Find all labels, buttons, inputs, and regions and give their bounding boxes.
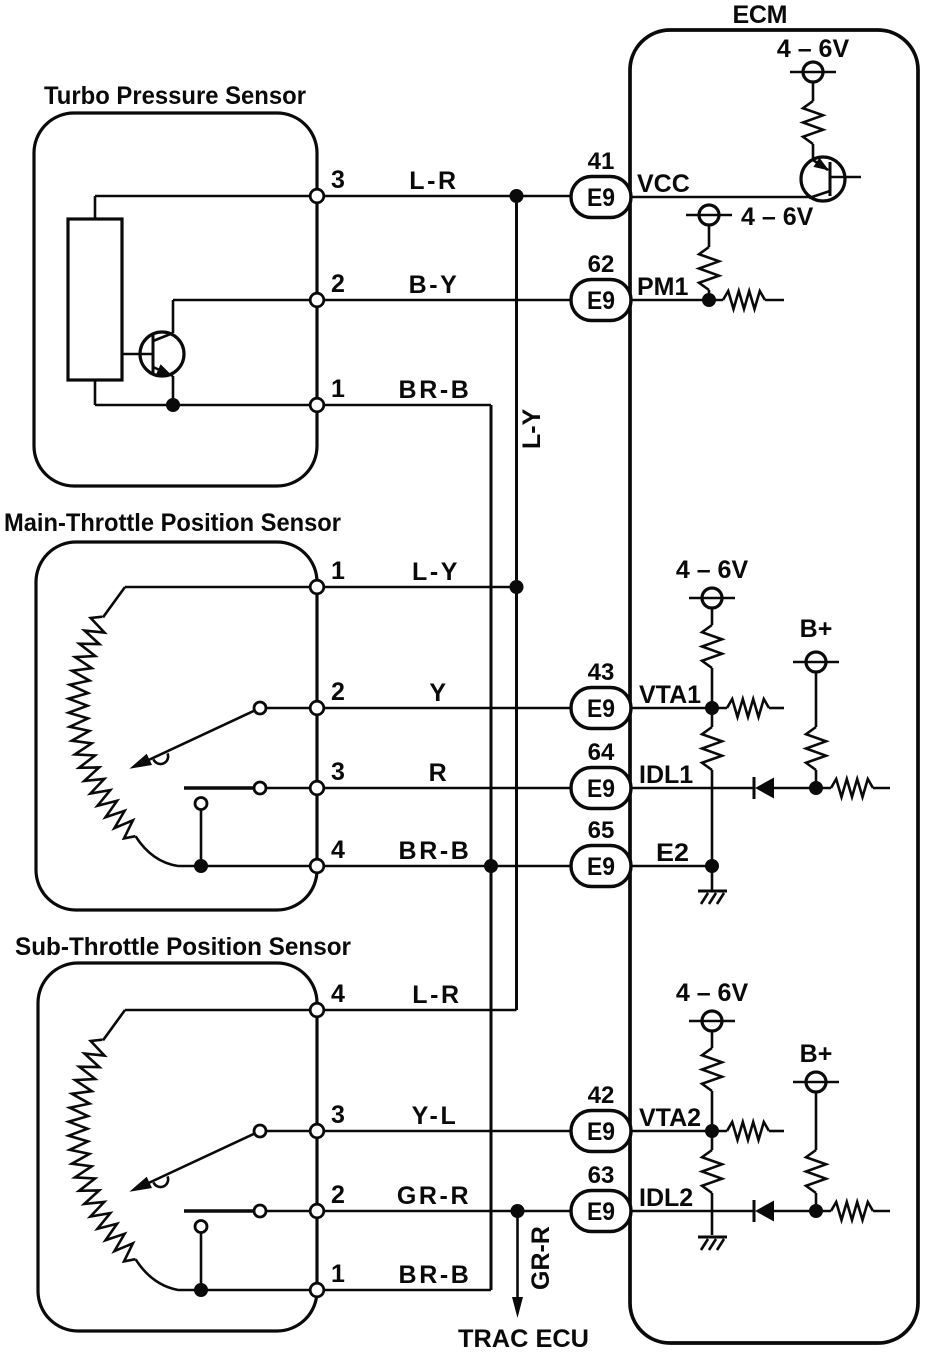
svg-text:VTA1: VTA1 bbox=[639, 681, 701, 709]
wire: L-Y vertical harness bbox=[515, 196, 518, 1010]
wiper arrow bbox=[140, 711, 254, 764]
resistor (VTA1 upper pull-up) bbox=[702, 625, 722, 668]
svg-text:Main-Throttle Position Sensor: Main-Throttle Position Sensor bbox=[4, 509, 341, 537]
power symbol 4-6V (PM1 pull-up) bbox=[686, 205, 732, 225]
wire: pin3 stub to sensor top bbox=[94, 196, 97, 219]
wire: resistor tail bbox=[873, 787, 890, 790]
wire: supply to resistor bbox=[708, 225, 711, 247]
svg-text:R: R bbox=[429, 759, 450, 787]
wire: IDL2 inside ECM bbox=[630, 1210, 754, 1213]
junction: contact post to pin wire bbox=[194, 859, 208, 873]
potentiometer resistive track bbox=[69, 617, 136, 839]
junction: VTA1 node bbox=[705, 701, 719, 715]
svg-text:4: 4 bbox=[331, 836, 345, 864]
svg-text:62: 62 bbox=[588, 251, 615, 278]
wire: diode to node bbox=[773, 787, 831, 790]
wire: pot bottom lead bbox=[136, 836, 178, 866]
diode D1 (IDL1) bbox=[754, 777, 774, 799]
wire: pot top lead bbox=[103, 1010, 125, 1040]
wire: L-R (turbo pin3 to VCC) bbox=[95, 195, 572, 198]
wire: resistor tail bbox=[873, 1210, 890, 1213]
wire: B+ to resistor bbox=[815, 1092, 818, 1150]
wire: GR-R branch to TRAC ECU bbox=[516, 1211, 519, 1300]
sensor element (resistive block) bbox=[68, 219, 122, 380]
IDL moving contact arm bbox=[184, 1209, 254, 1213]
junction: IDL1 node bbox=[809, 781, 823, 795]
pin 2 (sub) bbox=[310, 1204, 324, 1218]
power symbol 4-6V (VCC pull-up) bbox=[790, 62, 836, 82]
svg-text:63: 63 bbox=[588, 1162, 615, 1189]
wire: down past IDL row bbox=[711, 770, 714, 866]
IDL fixed contact circle bbox=[195, 798, 207, 810]
connector E9 pin 65 (E2) bbox=[571, 846, 631, 887]
pin 1 (sub) bbox=[310, 1283, 324, 1297]
svg-text:43: 43 bbox=[588, 659, 615, 686]
junction: emitter/pin1 node bbox=[166, 398, 180, 412]
junction: IDL2 node bbox=[809, 1204, 823, 1218]
wire: fixed contact post bbox=[200, 809, 203, 866]
wire: GR-R (sub pin2 to IDL2) bbox=[266, 1210, 572, 1213]
svg-text:E9: E9 bbox=[587, 287, 615, 315]
svg-text:L-Y: L-Y bbox=[518, 408, 546, 449]
svg-text:2: 2 bbox=[331, 1181, 345, 1209]
svg-text:IDL1: IDL1 bbox=[639, 761, 693, 789]
pin 1 (turbo) bbox=[310, 398, 324, 412]
resistor (below VTA2 node) bbox=[711, 1131, 714, 1150]
wire: supply to resistor bbox=[711, 608, 714, 625]
wire: Y-L (sub pin3 to VTA2) bbox=[266, 1130, 572, 1133]
svg-text:E9: E9 bbox=[587, 695, 615, 723]
svg-text:E9: E9 bbox=[587, 1198, 615, 1226]
wire: emitter to node bbox=[172, 376, 175, 405]
wire: diode to node bbox=[773, 1210, 831, 1213]
resistor (PM1 series) bbox=[723, 291, 765, 309]
wire: BR-B (turbo pin1) bbox=[95, 404, 491, 407]
wire: resistor to node bbox=[711, 668, 714, 708]
svg-text:E9: E9 bbox=[587, 1118, 615, 1146]
resistor (below VTA1 node) bbox=[711, 708, 714, 727]
wire: pot top lead bbox=[103, 587, 125, 617]
wire: resistor to IDL2 node bbox=[815, 1193, 818, 1211]
connector E9 pin 62 (PM1) bbox=[571, 280, 631, 321]
svg-text:GR-R: GR-R bbox=[527, 1226, 555, 1290]
svg-text:IDL2: IDL2 bbox=[639, 1184, 693, 1212]
IDL fixed contact circle bbox=[195, 1221, 207, 1233]
wire: resistor to IDL1 node bbox=[815, 770, 818, 788]
svg-text:TRAC ECU: TRAC ECU bbox=[458, 1325, 589, 1353]
svg-text:L-R: L-R bbox=[412, 981, 461, 1009]
diode D2 (IDL2) bbox=[754, 1200, 774, 1222]
wire: resistor tail bbox=[769, 707, 784, 710]
wire: sensor bottom stub bbox=[94, 380, 97, 405]
svg-text:Y-L: Y-L bbox=[412, 1102, 459, 1130]
wire: VTA1 inside ECM bbox=[630, 707, 727, 710]
svg-text:3: 3 bbox=[331, 1101, 345, 1129]
wire: E2 to ground bbox=[711, 866, 714, 890]
svg-text:3: 3 bbox=[331, 166, 345, 194]
junction: PM1 node bbox=[702, 293, 716, 307]
pin 1 (main) bbox=[310, 580, 324, 594]
svg-text:4 – 6V: 4 – 6V bbox=[676, 556, 749, 584]
svg-text:Y: Y bbox=[429, 679, 448, 707]
power symbol B+ (IDL1) bbox=[793, 652, 839, 672]
wire: BR-B (sub pin1) bbox=[178, 1289, 491, 1292]
wire: fixed contact post bbox=[200, 1232, 203, 1290]
junction: L-Y at main pin1 wire bbox=[510, 580, 524, 594]
svg-text:VTA2: VTA2 bbox=[639, 1104, 701, 1132]
pin 4 (sub) bbox=[310, 1003, 324, 1017]
pin 3 (turbo) bbox=[310, 189, 324, 203]
ECM box bbox=[630, 30, 918, 1343]
svg-text:L-Y: L-Y bbox=[412, 558, 460, 586]
resistor (IDL2 series) bbox=[831, 1202, 873, 1220]
resistor (IDL2 pull-up) bbox=[806, 1150, 826, 1193]
svg-text:Turbo Pressure Sensor: Turbo Pressure Sensor bbox=[44, 82, 306, 110]
junction: VTA2 node bbox=[705, 1124, 719, 1138]
svg-text:4 – 6V: 4 – 6V bbox=[741, 203, 814, 231]
svg-text:B+: B+ bbox=[800, 615, 833, 643]
connector E9 pin 43 (VTA1) bbox=[571, 688, 631, 729]
svg-text:E9: E9 bbox=[587, 853, 615, 881]
wiper arm contact circle bbox=[254, 702, 266, 714]
svg-text:BR-B: BR-B bbox=[399, 1261, 472, 1289]
connector E9 pin 64 (IDL1) bbox=[571, 768, 631, 809]
svg-text:BR-B: BR-B bbox=[399, 376, 472, 404]
connector E9 pin 41 (VCC) bbox=[571, 177, 631, 218]
Sub-Throttle Position Sensor box bbox=[38, 963, 317, 1331]
wire: resistor to transistor bbox=[812, 144, 815, 160]
potentiometer resistive track bbox=[69, 1040, 136, 1262]
svg-text:1: 1 bbox=[331, 1260, 345, 1288]
ground (E2) bbox=[698, 891, 727, 904]
wire: L-R (sub pin4) bbox=[125, 1009, 517, 1012]
resistor (VTA2 series) bbox=[727, 1122, 769, 1140]
pin 4 (main) bbox=[310, 859, 324, 873]
ground (VTA2 chain) bbox=[698, 1237, 727, 1250]
transistor Q1 (in sensor) bbox=[122, 332, 184, 376]
svg-text:VCC: VCC bbox=[637, 170, 690, 198]
wire: BR-B vertical harness bbox=[490, 405, 493, 1290]
svg-text:64: 64 bbox=[588, 739, 615, 766]
IDL moving contact arm bbox=[184, 786, 254, 790]
wiper pivot arc bbox=[154, 753, 169, 764]
wire: down past IDL row bbox=[711, 1193, 714, 1235]
svg-text:B-Y: B-Y bbox=[409, 271, 460, 299]
svg-text:65: 65 bbox=[588, 817, 615, 844]
svg-text:PM1: PM1 bbox=[637, 273, 689, 301]
wiper arrow bbox=[140, 1134, 254, 1187]
svg-text:41: 41 bbox=[588, 148, 615, 175]
resistor (IDL1 series) bbox=[831, 779, 873, 797]
transistor U1 (ECM VCC) bbox=[801, 157, 861, 201]
svg-text:L-R: L-R bbox=[409, 167, 458, 195]
pin 2 (main) bbox=[310, 701, 324, 715]
svg-text:42: 42 bbox=[588, 1082, 615, 1109]
svg-text:BR-B: BR-B bbox=[399, 837, 472, 865]
wire: resistor tail bbox=[765, 299, 784, 302]
connector E9 pin 63 (IDL2) bbox=[571, 1191, 631, 1232]
power symbol 4-6V (VTA2 pull-up) bbox=[689, 1011, 735, 1031]
svg-text:ECM: ECM bbox=[733, 1, 788, 29]
junction: L-Y at VCC wire bbox=[510, 189, 524, 203]
pin 3 (main) bbox=[310, 781, 324, 795]
svg-text:GR-R: GR-R bbox=[397, 1182, 471, 1210]
Main-Throttle Position Sensor box bbox=[36, 542, 317, 910]
junction: E2 node bbox=[705, 859, 719, 873]
junction: BR-B at E2 wire bbox=[484, 859, 498, 873]
Turbo Pressure Sensor box bbox=[34, 113, 317, 486]
svg-text:3: 3 bbox=[331, 758, 345, 786]
arrow to TRAC ECU bbox=[512, 1297, 523, 1318]
svg-text:1: 1 bbox=[331, 557, 345, 585]
wire: resistor to PM1 node bbox=[708, 290, 711, 300]
svg-text:4 – 6V: 4 – 6V bbox=[676, 979, 749, 1007]
svg-text:Sub-Throttle Position Sensor: Sub-Throttle Position Sensor bbox=[15, 933, 351, 961]
resistor (VTA2 upper pull-up) bbox=[702, 1048, 722, 1091]
svg-text:4: 4 bbox=[331, 980, 345, 1008]
wire: B+ to resistor bbox=[815, 672, 818, 727]
wiper arm contact circle bbox=[254, 1125, 266, 1137]
resistor (PM1 pull-up) bbox=[699, 247, 719, 290]
svg-text:2: 2 bbox=[331, 678, 345, 706]
wire: resistor tail bbox=[769, 1130, 784, 1133]
wire: VTA2 inside ECM bbox=[630, 1130, 727, 1133]
pin 3 (sub) bbox=[310, 1124, 324, 1138]
wire: resistor to node bbox=[711, 1091, 714, 1131]
resistor (VTA1 series) bbox=[727, 699, 769, 717]
IDL contact circle bbox=[254, 782, 266, 794]
connector E9 pin 42 (VTA2) bbox=[571, 1111, 631, 1152]
wire: BR-B (main pin4 to E2) bbox=[178, 865, 572, 868]
wire: IDL1 inside ECM bbox=[630, 787, 754, 790]
wire: L-Y (main pin1) bbox=[125, 586, 517, 589]
wiper pivot arc bbox=[154, 1176, 169, 1187]
wire: supply to resistor bbox=[711, 1031, 714, 1048]
wire: PM1 inside ECM bbox=[630, 299, 723, 302]
junction: GR-R branch bbox=[511, 1204, 525, 1218]
wire: supply to resistor bbox=[812, 82, 815, 101]
wire: turbo pin2 corner down to transistor collector bbox=[172, 300, 175, 333]
resistor (VCC pull-up) bbox=[803, 101, 823, 144]
svg-text:1: 1 bbox=[331, 375, 345, 403]
wire: R (main pin3 to IDL1) bbox=[266, 787, 572, 790]
IDL contact circle bbox=[254, 1205, 266, 1217]
svg-text:E9: E9 bbox=[587, 184, 615, 212]
svg-text:E9: E9 bbox=[587, 775, 615, 803]
svg-text:2: 2 bbox=[331, 270, 345, 298]
wire: VCC inside ECM bbox=[630, 196, 809, 199]
wire: E2 inside ECM bbox=[630, 865, 712, 868]
power symbol B+ (IDL2) bbox=[793, 1072, 839, 1092]
wire: B-Y (turbo pin2 to PM1) bbox=[173, 299, 572, 302]
wire: Y (main pin2 to VTA1) bbox=[266, 707, 572, 710]
svg-text:4 – 6V: 4 – 6V bbox=[777, 35, 850, 63]
svg-text:E2: E2 bbox=[656, 839, 689, 867]
resistor (IDL1 pull-up) bbox=[806, 727, 826, 770]
power symbol 4-6V (VTA1 pull-up) bbox=[689, 588, 735, 608]
svg-text:B+: B+ bbox=[800, 1040, 833, 1068]
pin 2 (turbo) bbox=[310, 293, 324, 307]
junction: contact post to pin wire bbox=[194, 1283, 208, 1297]
wire: pot bottom lead bbox=[136, 1259, 178, 1290]
